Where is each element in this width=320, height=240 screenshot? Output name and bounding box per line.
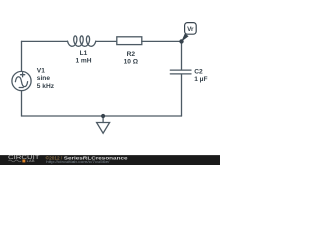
svg-text:Vr: Vr	[187, 26, 194, 33]
svg-text:R2: R2	[127, 51, 136, 58]
wire resistor to node	[142, 40, 182, 42]
svg-text:V1: V1	[37, 67, 45, 74]
wire node down to capacitor	[181, 41, 183, 70]
wire capacitor to bottom	[181, 75, 183, 116]
Vr flag stem	[181, 33, 188, 41]
node junction dot	[179, 39, 183, 43]
svg-text:http://circuitlab.com/c/7cu56e: http://circuitlab.com/c/7cu56e/	[46, 159, 111, 164]
svg-text:10 Ω: 10 Ω	[124, 59, 139, 66]
svg-text:LAB: LAB	[27, 159, 35, 163]
ground stub	[102, 116, 104, 123]
ground	[97, 123, 110, 134]
ground junction dot	[101, 114, 105, 118]
svg-text:5 kHz: 5 kHz	[37, 83, 55, 90]
svg-text:sine: sine	[37, 75, 51, 82]
svg-text:L1: L1	[80, 50, 88, 57]
wire top-left horizontal	[22, 40, 68, 42]
svg-text:1 µF: 1 µF	[194, 76, 207, 83]
Vr flag box	[185, 23, 197, 35]
logo orange square	[22, 160, 25, 163]
voltage source V1	[12, 71, 31, 90]
wire bottom horizontal	[22, 115, 182, 117]
wire inductor to resistor	[96, 40, 117, 42]
svg-text:C2: C2	[194, 69, 203, 76]
wire left vertical	[21, 41, 23, 71]
capacitor C2	[170, 70, 191, 74]
inductor L1	[68, 36, 96, 46]
wire source bottom	[21, 91, 23, 116]
svg-text:1 mH: 1 mH	[75, 57, 91, 64]
resistor R2	[117, 37, 142, 45]
watermark bar	[0, 155, 220, 165]
logo squiggle	[9, 160, 22, 162]
